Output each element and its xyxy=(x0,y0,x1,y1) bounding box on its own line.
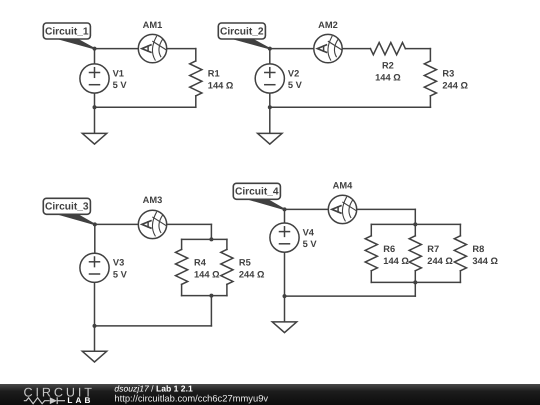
svg-text:http://circuitlab.com/cch6c27m: http://circuitlab.com/cch6c27mmyu9v xyxy=(114,393,268,404)
svg-text:344 Ω: 344 Ω xyxy=(472,256,498,266)
svg-text:244 Ω: 244 Ω xyxy=(442,80,468,90)
svg-text:5 V: 5 V xyxy=(288,80,303,90)
svg-text:R7: R7 xyxy=(427,244,439,254)
svg-text:244 Ω: 244 Ω xyxy=(239,270,265,280)
svg-text:Circuit_2: Circuit_2 xyxy=(220,26,264,37)
svg-text:V1: V1 xyxy=(113,68,124,78)
svg-text:144 Ω: 144 Ω xyxy=(375,72,401,82)
svg-text:Circuit_1: Circuit_1 xyxy=(45,26,89,37)
svg-text:R5: R5 xyxy=(239,258,251,268)
svg-text:V3: V3 xyxy=(113,258,124,268)
svg-text:5 V: 5 V xyxy=(113,80,128,90)
svg-text:Circuit_4: Circuit_4 xyxy=(235,187,279,198)
svg-text:AM4: AM4 xyxy=(333,180,353,190)
svg-text:AM1: AM1 xyxy=(143,20,163,30)
svg-text:5 V: 5 V xyxy=(303,239,318,249)
svg-text:144 Ω: 144 Ω xyxy=(194,270,220,280)
svg-text:V2: V2 xyxy=(288,68,299,78)
svg-text:144 Ω: 144 Ω xyxy=(208,80,234,90)
svg-text:AM2: AM2 xyxy=(318,20,338,30)
svg-text:R3: R3 xyxy=(442,68,454,78)
svg-text:LAB: LAB xyxy=(67,396,93,405)
svg-text:R1: R1 xyxy=(208,68,220,78)
svg-text:144 Ω: 144 Ω xyxy=(383,256,409,266)
svg-text:244 Ω: 244 Ω xyxy=(427,256,453,266)
svg-text:V4: V4 xyxy=(303,227,315,237)
svg-text:R8: R8 xyxy=(472,244,484,254)
svg-text:R2: R2 xyxy=(382,61,394,71)
svg-text:R6: R6 xyxy=(383,244,395,254)
svg-text:Circuit_3: Circuit_3 xyxy=(45,202,89,213)
svg-text:R4: R4 xyxy=(194,258,207,268)
svg-text:AM3: AM3 xyxy=(143,195,163,205)
svg-text:5 V: 5 V xyxy=(113,269,128,279)
